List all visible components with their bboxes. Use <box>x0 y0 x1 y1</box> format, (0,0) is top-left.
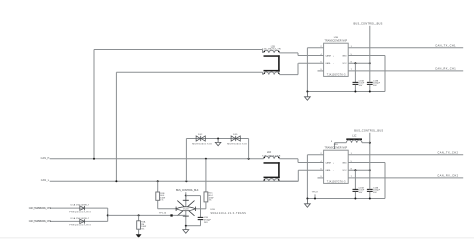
svg-text:D1-D4: D1-D4 <box>183 209 188 211</box>
svg-text:CANL: CANL <box>325 62 331 65</box>
svg-text:TRANSCEIVER NXP: TRANSCEIVER NXP <box>325 147 348 150</box>
svg-text:CAN_H: CAN_H <box>41 157 50 160</box>
svg-text:GND: GND <box>342 55 347 57</box>
svg-text:FREQ550CT-E/3: FREQ550CT-E/3 <box>69 211 91 213</box>
svg-text:50V: 50V <box>359 192 363 194</box>
svg-text:5%: 5% <box>141 229 144 231</box>
svg-text:D1C: D1C <box>198 134 203 136</box>
svg-text:TP1-9: TP1-9 <box>312 192 319 194</box>
svg-text:CANH: CANH <box>325 161 331 164</box>
svg-text:SMAJ24CA-13-F-TRANS: SMAJ24CA-13-F-TRANS <box>211 212 247 215</box>
svg-text:TJA1057GTK-3: TJA1057GTK-3 <box>327 180 346 183</box>
svg-text:CAN_TERMINATE_CH2: CAN_TERMINATE_CH2 <box>29 220 52 223</box>
svg-text:TP1-10: TP1-10 <box>159 212 167 214</box>
svg-text:MURS4601T4G: MURS4601T4G <box>227 144 247 146</box>
svg-text:U1D: U1D <box>334 144 339 146</box>
svg-text:CAN_TERMINATE_CH1: CAN_TERMINATE_CH1 <box>29 207 52 210</box>
svg-text:CAN_RX_CH1: CAN_RX_CH1 <box>435 67 456 71</box>
svg-text:50V: 50V <box>359 85 363 87</box>
svg-text:D1D: D1D <box>233 134 238 136</box>
svg-text:TRANSCEIVER NXP: TRANSCEIVER NXP <box>325 40 348 43</box>
svg-text:D1B: D1B <box>211 209 216 211</box>
svg-text:CANH: CANH <box>325 54 331 57</box>
svg-text:CANL: CANL <box>325 169 331 172</box>
svg-text:BUS_CONTROL_BUS: BUS_CONTROL_BUS <box>354 129 383 133</box>
svg-text:CAN_RX_CH2: CAN_RX_CH2 <box>437 174 458 178</box>
svg-text:BUS_CONTROL_BLK: BUS_CONTROL_BLK <box>176 189 199 192</box>
svg-text:1%: 1% <box>209 200 212 202</box>
svg-text:GND: GND <box>342 162 347 164</box>
svg-text:748-2M254-TR: 748-2M254-TR <box>262 48 281 50</box>
svg-text:FREQ550CT-E/3: FREQ550CT-E/3 <box>69 225 91 227</box>
svg-text:VCC: VCC <box>342 63 347 65</box>
svg-text:TJA1057GTK-3: TJA1057GTK-3 <box>327 73 346 76</box>
svg-text:748-2M254-TR: 748-2M254-TR <box>262 155 281 157</box>
svg-text:VCC: VCC <box>342 170 347 172</box>
svg-text:2KV: 2KV <box>204 222 209 224</box>
svg-text:50V: 50V <box>373 85 377 87</box>
svg-text:MURS4601T4G: MURS4601T4G <box>192 144 212 146</box>
svg-text:L1C: L1C <box>352 136 357 138</box>
svg-text:50V: 50V <box>373 192 377 194</box>
svg-text:1%: 1% <box>160 200 163 202</box>
svg-text:BUS_CONTROL_BUS: BUS_CONTROL_BUS <box>353 22 382 26</box>
svg-text:D1A 1N4148W-7: D1A 1N4148W-7 <box>71 204 90 207</box>
svg-text:U1B: U1B <box>334 37 339 39</box>
svg-text:CAN_L: CAN_L <box>41 179 50 182</box>
svg-text:CAN_TX_CH2: CAN_TX_CH2 <box>438 150 459 154</box>
svg-text:D1A 1N4148W-7: D1A 1N4148W-7 <box>71 217 90 220</box>
svg-text:L1D: L1D <box>267 152 272 154</box>
svg-text:CAN_TX_CH1: CAN_TX_CH1 <box>435 43 456 47</box>
